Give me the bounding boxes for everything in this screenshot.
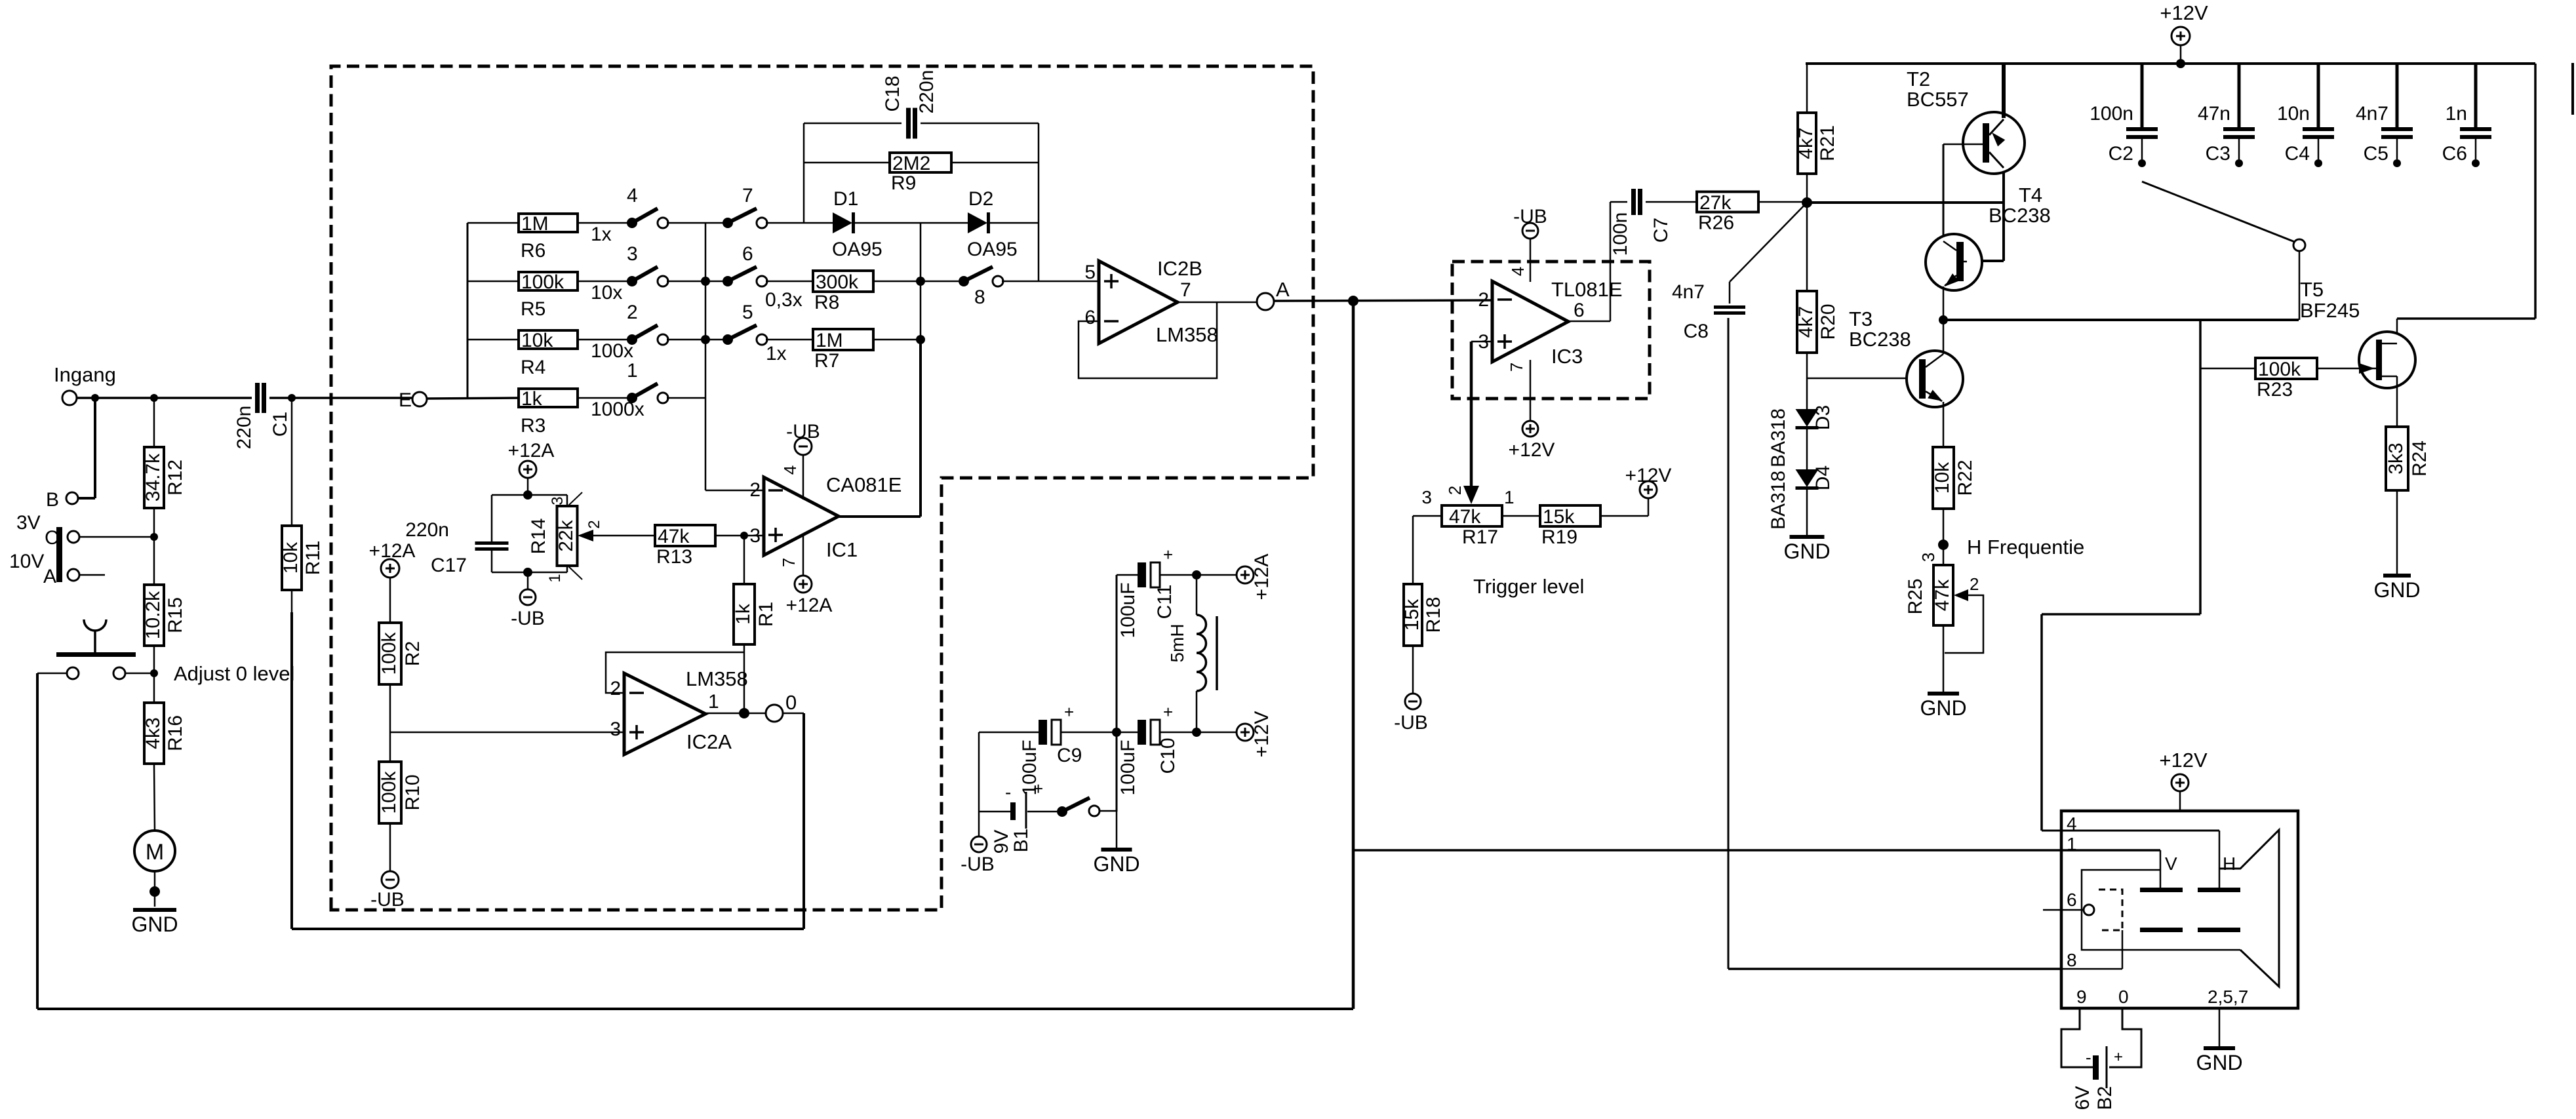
- svg-text:0: 0: [2118, 987, 2129, 1007]
- svg-text:R11: R11: [302, 541, 324, 576]
- svg-text:R16: R16: [165, 715, 186, 751]
- svg-text:BC238: BC238: [1849, 328, 1911, 351]
- svg-text:T4: T4: [2019, 184, 2042, 206]
- svg-text:-UB: -UB: [1513, 206, 1547, 227]
- svg-text:2: 2: [1478, 289, 1489, 311]
- svg-text:47n: 47n: [2198, 103, 2230, 125]
- svg-text:4n7: 4n7: [2356, 103, 2388, 125]
- svg-text:1: 1: [546, 574, 564, 582]
- svg-text:1x: 1x: [766, 343, 787, 364]
- svg-text:H Frequentie: H Frequentie: [1967, 536, 2084, 559]
- svg-text:1: 1: [627, 360, 638, 382]
- svg-text:100uF: 100uF: [1117, 739, 1139, 795]
- svg-text:IC2B: IC2B: [1157, 257, 1202, 280]
- svg-text:+: +: [1064, 702, 1074, 722]
- svg-text:LM358: LM358: [1156, 323, 1218, 346]
- svg-text:4: 4: [1508, 267, 1528, 276]
- svg-text:100k: 100k: [378, 770, 400, 814]
- svg-text:R20: R20: [1817, 304, 1839, 340]
- svg-text:GND: GND: [2373, 578, 2420, 602]
- svg-text:0,3x: 0,3x: [765, 289, 803, 311]
- svg-text:1: 1: [708, 691, 719, 713]
- svg-text:+12V: +12V: [1251, 711, 1273, 758]
- svg-text:3V: 3V: [16, 512, 41, 534]
- svg-text:C10: C10: [1157, 737, 1179, 774]
- svg-text:4: 4: [627, 185, 638, 206]
- svg-text:2: 2: [610, 678, 621, 699]
- svg-text:BF245: BF245: [2300, 299, 2360, 322]
- svg-text:-: -: [1005, 782, 1011, 802]
- svg-text:7: 7: [779, 558, 799, 567]
- svg-text:R17: R17: [1462, 526, 1498, 548]
- svg-text:8: 8: [2067, 950, 2077, 970]
- svg-text:B: B: [46, 489, 59, 511]
- svg-text:5mH: 5mH: [1167, 623, 1187, 662]
- svg-text:2: 2: [627, 302, 638, 323]
- svg-text:7: 7: [1507, 363, 1526, 372]
- svg-text:R9: R9: [891, 172, 916, 194]
- svg-text:R22: R22: [1954, 460, 1976, 496]
- svg-text:C7: C7: [1650, 218, 1672, 243]
- svg-text:47k: 47k: [1449, 506, 1481, 528]
- svg-text:C9: C9: [1057, 745, 1082, 766]
- svg-text:2M2: 2M2: [892, 153, 930, 174]
- svg-text:BA318: BA318: [1768, 408, 1789, 467]
- svg-text:H: H: [2223, 854, 2236, 874]
- svg-text:+12V: +12V: [1509, 439, 1555, 461]
- svg-text:1M: 1M: [521, 213, 549, 235]
- svg-text:LM358: LM358: [686, 667, 748, 690]
- svg-text:6: 6: [1084, 307, 1096, 328]
- svg-text:9V: 9V: [991, 830, 1012, 854]
- svg-text:10k: 10k: [1932, 461, 1953, 494]
- svg-text:R18: R18: [1423, 597, 1444, 633]
- svg-text:+12A: +12A: [1251, 554, 1273, 600]
- svg-text:TL081E: TL081E: [1551, 278, 1623, 301]
- svg-text:4n7: 4n7: [1672, 281, 1705, 303]
- svg-text:1k: 1k: [732, 603, 754, 625]
- svg-text:100x: 100x: [591, 340, 633, 362]
- svg-text:C8: C8: [1684, 321, 1709, 342]
- svg-text:GND: GND: [1920, 696, 1966, 720]
- svg-text:6: 6: [742, 243, 753, 265]
- svg-text:IC3: IC3: [1551, 345, 1583, 368]
- svg-text:5: 5: [742, 302, 753, 323]
- svg-text:BC557: BC557: [1907, 88, 1969, 111]
- svg-text:-UB: -UB: [961, 854, 995, 875]
- svg-text:+12V: +12V: [2159, 749, 2208, 772]
- svg-text:220n: 220n: [916, 70, 938, 114]
- svg-text:T5: T5: [2300, 278, 2324, 301]
- svg-text:2: 2: [1445, 486, 1465, 495]
- svg-text:47k: 47k: [1932, 579, 1953, 611]
- svg-text:27k: 27k: [1699, 192, 1732, 214]
- svg-text:4k3: 4k3: [142, 717, 164, 749]
- svg-text:100n: 100n: [1610, 212, 1631, 256]
- svg-text:GND: GND: [131, 913, 178, 936]
- svg-text:C2: C2: [2109, 143, 2133, 165]
- svg-text:3: 3: [1918, 553, 1938, 562]
- svg-text:A: A: [43, 566, 56, 587]
- svg-text:15k: 15k: [1401, 599, 1423, 631]
- svg-text:D3: D3: [1812, 405, 1834, 430]
- svg-text:3k3: 3k3: [2385, 442, 2407, 474]
- svg-text:4k7: 4k7: [1795, 306, 1817, 338]
- svg-text:1: 1: [1504, 487, 1515, 507]
- svg-text:R6: R6: [521, 240, 545, 262]
- svg-text:1n: 1n: [2446, 103, 2467, 125]
- svg-text:+12A: +12A: [786, 595, 833, 616]
- svg-text:C17: C17: [431, 555, 467, 576]
- svg-text:9: 9: [2076, 987, 2087, 1007]
- svg-text:R21: R21: [1817, 125, 1838, 161]
- svg-text:-: -: [2086, 1048, 2091, 1067]
- svg-text:D4: D4: [1812, 465, 1834, 490]
- svg-text:OA95: OA95: [967, 239, 1018, 260]
- svg-text:R1: R1: [755, 602, 777, 627]
- svg-text:10n: 10n: [2277, 103, 2310, 125]
- svg-text:C4: C4: [2285, 143, 2310, 165]
- svg-text:+12V: +12V: [1625, 465, 1672, 486]
- svg-text:D1: D1: [833, 188, 858, 210]
- svg-text:Ingang: Ingang: [54, 363, 116, 386]
- svg-text:2,5,7: 2,5,7: [2208, 987, 2248, 1007]
- svg-text:6: 6: [1574, 300, 1585, 321]
- svg-text:+: +: [1033, 779, 1043, 798]
- svg-text:T2: T2: [1907, 68, 1930, 90]
- svg-text:100k: 100k: [2258, 359, 2301, 380]
- svg-text:OA95: OA95: [832, 239, 882, 260]
- svg-text:34.7k: 34.7k: [142, 453, 164, 501]
- svg-text:15k: 15k: [1543, 506, 1575, 528]
- svg-text:R14: R14: [528, 518, 549, 554]
- svg-text:R12: R12: [165, 460, 186, 496]
- svg-text:2: 2: [749, 479, 761, 501]
- svg-text:100k: 100k: [378, 631, 400, 675]
- svg-text:C6: C6: [2442, 143, 2467, 165]
- svg-text:R26: R26: [1698, 212, 1734, 234]
- svg-text:6: 6: [2067, 890, 2077, 910]
- svg-text:R2: R2: [402, 641, 424, 666]
- svg-text:100k: 100k: [521, 271, 565, 293]
- svg-text:4: 4: [780, 465, 800, 475]
- svg-text:0: 0: [785, 691, 797, 714]
- svg-text:A: A: [1276, 278, 1290, 301]
- svg-text:R4: R4: [521, 357, 545, 378]
- svg-text:220n: 220n: [405, 519, 449, 541]
- svg-text:-UB: -UB: [511, 608, 545, 629]
- svg-text:E: E: [399, 389, 412, 411]
- svg-text:T3: T3: [1849, 307, 1873, 330]
- svg-text:+12A: +12A: [508, 440, 555, 461]
- svg-text:B2: B2: [2094, 1086, 2116, 1110]
- svg-text:1x: 1x: [591, 224, 612, 245]
- svg-text:47k: 47k: [658, 526, 690, 547]
- svg-text:R8: R8: [814, 292, 839, 313]
- svg-text:GND: GND: [1783, 540, 1830, 563]
- svg-text:4: 4: [2067, 814, 2077, 834]
- svg-text:BC238: BC238: [1989, 204, 2051, 227]
- svg-text:R13: R13: [656, 546, 692, 568]
- svg-text:C3: C3: [2206, 143, 2230, 165]
- svg-text:R3: R3: [521, 415, 545, 437]
- svg-text:+: +: [1163, 545, 1173, 564]
- svg-text:1: 1: [2067, 834, 2077, 854]
- svg-text:R24: R24: [2409, 441, 2430, 477]
- svg-text:+: +: [1163, 702, 1173, 722]
- svg-text:1M: 1M: [816, 330, 843, 351]
- svg-text:C18: C18: [882, 75, 903, 111]
- svg-text:5: 5: [1084, 262, 1096, 283]
- svg-text:220n: 220n: [233, 406, 255, 450]
- svg-text:+12A: +12A: [369, 540, 416, 562]
- svg-text:10V: 10V: [9, 551, 44, 572]
- svg-text:IC2A: IC2A: [686, 730, 732, 753]
- svg-text:V: V: [2165, 854, 2177, 874]
- svg-text:300k: 300k: [816, 271, 859, 293]
- svg-text:R15: R15: [165, 597, 186, 633]
- svg-text:C1: C1: [269, 412, 291, 437]
- svg-text:B1: B1: [1010, 829, 1032, 853]
- svg-text:8: 8: [974, 286, 985, 308]
- svg-text:R19: R19: [1541, 526, 1577, 548]
- svg-text:3: 3: [1421, 487, 1432, 507]
- svg-text:4k7: 4k7: [1795, 127, 1817, 159]
- svg-text:CA081E: CA081E: [826, 473, 902, 496]
- svg-text:1k: 1k: [521, 388, 543, 410]
- svg-text:1000x: 1000x: [591, 399, 644, 420]
- svg-text:7: 7: [742, 185, 753, 206]
- svg-text:IC1: IC1: [826, 538, 858, 561]
- svg-text:GND: GND: [2196, 1051, 2242, 1074]
- svg-text:R23: R23: [2257, 379, 2293, 401]
- svg-text:Adjust 0 level: Adjust 0 level: [174, 662, 294, 685]
- svg-text:22k: 22k: [555, 519, 577, 551]
- svg-text:10k: 10k: [280, 541, 302, 574]
- svg-text:C11: C11: [1154, 585, 1176, 619]
- svg-text:+: +: [2114, 1048, 2123, 1066]
- svg-text:M: M: [146, 840, 164, 865]
- svg-text:R10: R10: [402, 774, 424, 810]
- svg-text:10.2k: 10.2k: [142, 591, 164, 639]
- svg-text:6V: 6V: [2072, 1086, 2093, 1110]
- svg-text:-UB: -UB: [1394, 712, 1428, 734]
- svg-text:-UB: -UB: [786, 421, 820, 442]
- svg-text:C5: C5: [2364, 143, 2388, 165]
- svg-text:10k: 10k: [521, 330, 553, 351]
- svg-text:2: 2: [585, 520, 603, 528]
- svg-text:7: 7: [1180, 279, 1191, 301]
- svg-text:+12V: +12V: [2160, 1, 2208, 24]
- svg-text:100uF: 100uF: [1117, 582, 1139, 638]
- svg-text:3: 3: [627, 243, 638, 265]
- svg-text:GND: GND: [1093, 852, 1139, 876]
- svg-text:2: 2: [1970, 574, 1979, 594]
- svg-text:R7: R7: [814, 350, 839, 372]
- svg-text:3: 3: [610, 718, 621, 740]
- svg-text:R25: R25: [1905, 578, 1926, 614]
- svg-text:-UB: -UB: [370, 889, 405, 911]
- svg-text:D2: D2: [968, 188, 993, 210]
- svg-text:10x: 10x: [591, 282, 622, 304]
- svg-text:BA318: BA318: [1768, 471, 1789, 530]
- svg-text:Trigger level: Trigger level: [1473, 575, 1584, 598]
- svg-text:R5: R5: [521, 298, 545, 320]
- svg-text:3: 3: [549, 496, 566, 505]
- svg-text:100n: 100n: [2090, 103, 2133, 125]
